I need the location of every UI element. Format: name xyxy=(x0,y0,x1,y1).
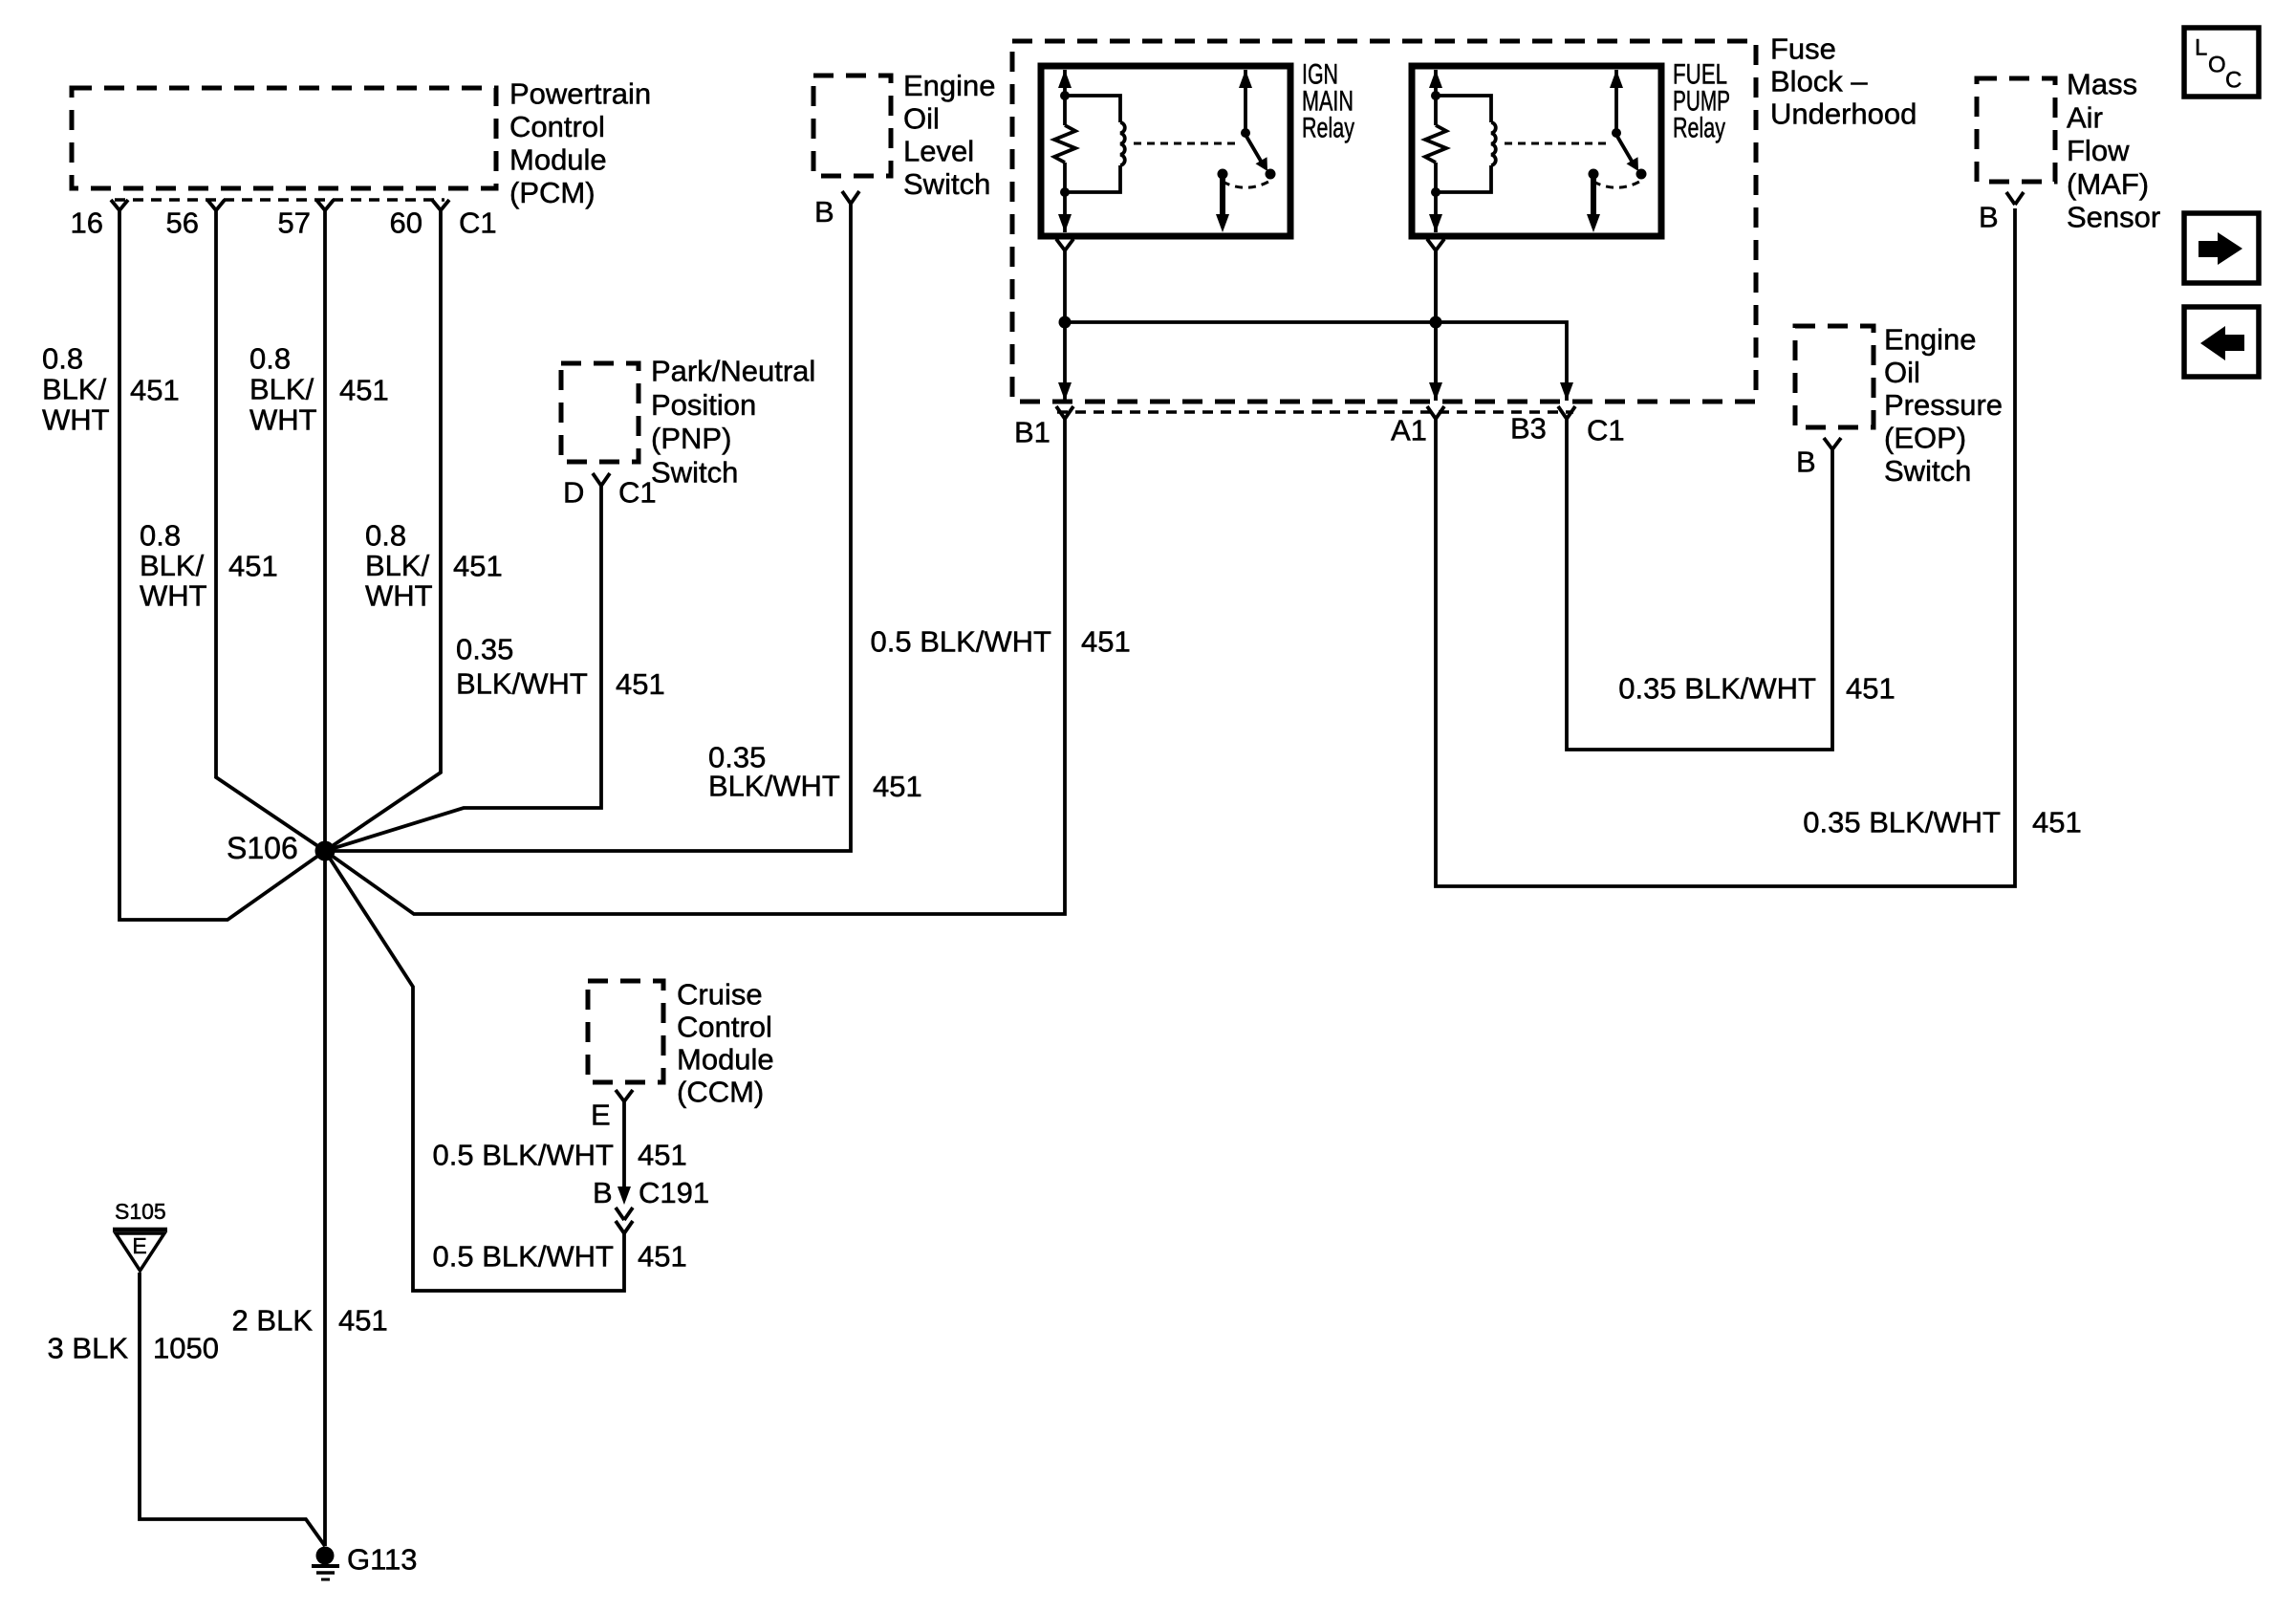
svg-text:451: 451 xyxy=(338,1304,388,1338)
svg-text:B: B xyxy=(593,1176,613,1209)
svg-text:(MAF): (MAF) xyxy=(2067,167,2149,201)
svg-text:G113: G113 xyxy=(347,1543,418,1577)
svg-text:(EOP): (EOP) xyxy=(1884,422,1966,455)
svg-text:A1: A1 xyxy=(1391,414,1427,447)
svg-text:BLK/: BLK/ xyxy=(249,373,314,406)
svg-text:BLK/: BLK/ xyxy=(140,549,205,582)
svg-text:451: 451 xyxy=(1081,625,1131,659)
svg-text:Engine: Engine xyxy=(1884,323,1977,357)
svg-text:B: B xyxy=(814,195,834,229)
svg-text:451: 451 xyxy=(638,1139,687,1172)
svg-text:Pressure: Pressure xyxy=(1884,388,2003,422)
svg-text:(PNP): (PNP) xyxy=(651,422,731,455)
svg-text:451: 451 xyxy=(1846,672,1895,706)
svg-text:3 BLK: 3 BLK xyxy=(48,1332,129,1365)
svg-text:Control: Control xyxy=(509,110,605,143)
svg-text:B: B xyxy=(1979,201,1999,234)
svg-text:0.35 BLK/WHT: 0.35 BLK/WHT xyxy=(1803,806,2001,839)
svg-text:0.8: 0.8 xyxy=(42,342,83,376)
svg-text:WHT: WHT xyxy=(249,403,317,437)
svg-text:O: O xyxy=(2208,53,2226,78)
svg-text:451: 451 xyxy=(228,549,278,582)
svg-text:Module: Module xyxy=(677,1043,774,1077)
svg-text:BLK/: BLK/ xyxy=(42,373,107,406)
svg-text:Air: Air xyxy=(2067,100,2103,134)
svg-text:Fuse: Fuse xyxy=(1770,33,1836,66)
svg-text:Oil: Oil xyxy=(903,101,940,135)
svg-text:L: L xyxy=(2195,35,2207,61)
svg-text:BLK/WHT: BLK/WHT xyxy=(708,770,840,803)
svg-text:60: 60 xyxy=(390,207,422,240)
svg-text:451: 451 xyxy=(873,770,922,803)
svg-text:WHT: WHT xyxy=(42,403,110,437)
svg-text:C1: C1 xyxy=(459,207,497,240)
svg-text:C191: C191 xyxy=(639,1176,709,1209)
svg-text:Block –: Block – xyxy=(1770,65,1868,98)
svg-text:C1: C1 xyxy=(1587,414,1625,447)
svg-text:Module: Module xyxy=(509,143,607,177)
svg-text:S105: S105 xyxy=(115,1199,166,1224)
svg-text:Position: Position xyxy=(651,388,756,422)
svg-text:451: 451 xyxy=(130,374,180,407)
svg-text:Flow: Flow xyxy=(2067,134,2130,167)
svg-text:0.5 BLK/WHT: 0.5 BLK/WHT xyxy=(433,1139,615,1172)
svg-text:Sensor: Sensor xyxy=(2067,201,2160,234)
svg-text:D: D xyxy=(563,476,584,510)
svg-text:Park/Neutral: Park/Neutral xyxy=(651,355,815,388)
svg-text:C: C xyxy=(2225,68,2242,94)
svg-text:0.5 BLK/WHT: 0.5 BLK/WHT xyxy=(433,1240,615,1274)
svg-text:Mass: Mass xyxy=(2067,68,2137,101)
svg-text:Switch: Switch xyxy=(651,456,738,490)
svg-text:Switch: Switch xyxy=(1884,454,1971,488)
svg-text:451: 451 xyxy=(638,1240,687,1274)
svg-text:Cruise: Cruise xyxy=(677,978,763,1012)
svg-text:Oil: Oil xyxy=(1884,356,1920,389)
svg-text:Relay: Relay xyxy=(1302,113,1354,144)
svg-text:BLK/: BLK/ xyxy=(365,549,430,582)
svg-text:451: 451 xyxy=(453,549,503,582)
svg-text:0.35 BLK/WHT: 0.35 BLK/WHT xyxy=(1618,672,1816,706)
svg-text:16: 16 xyxy=(71,207,103,240)
svg-text:1050: 1050 xyxy=(153,1332,219,1365)
svg-text:B3: B3 xyxy=(1510,412,1547,446)
svg-text:E: E xyxy=(591,1099,611,1132)
svg-text:Engine: Engine xyxy=(903,69,996,102)
svg-text:Powertrain: Powertrain xyxy=(509,77,651,111)
svg-text:Control: Control xyxy=(677,1011,772,1044)
svg-text:WHT: WHT xyxy=(140,579,207,613)
svg-text:451: 451 xyxy=(2032,806,2082,839)
svg-text:451: 451 xyxy=(339,374,389,407)
svg-text:Underhood: Underhood xyxy=(1770,98,1917,131)
svg-text:S106: S106 xyxy=(227,831,298,865)
svg-text:B1: B1 xyxy=(1014,416,1051,449)
svg-text:C1: C1 xyxy=(618,476,657,510)
svg-text:0.8: 0.8 xyxy=(249,342,291,376)
svg-text:0.5 BLK/WHT: 0.5 BLK/WHT xyxy=(871,625,1052,659)
svg-text:B: B xyxy=(1796,446,1816,479)
svg-text:WHT: WHT xyxy=(365,579,433,613)
svg-text:BLK/WHT: BLK/WHT xyxy=(456,667,588,701)
svg-text:0.8: 0.8 xyxy=(365,519,406,553)
svg-text:0.35: 0.35 xyxy=(456,633,513,666)
svg-text:2 BLK: 2 BLK xyxy=(232,1304,314,1338)
svg-text:(CCM): (CCM) xyxy=(677,1076,764,1109)
svg-text:E: E xyxy=(132,1233,146,1258)
svg-text:Relay: Relay xyxy=(1673,113,1725,144)
svg-text:Level: Level xyxy=(903,135,974,168)
svg-text:(PCM): (PCM) xyxy=(509,176,596,209)
svg-text:0.8: 0.8 xyxy=(140,519,181,553)
svg-text:56: 56 xyxy=(166,207,199,240)
svg-text:57: 57 xyxy=(278,207,311,240)
svg-text:451: 451 xyxy=(616,667,665,701)
svg-text:Switch: Switch xyxy=(903,167,990,201)
